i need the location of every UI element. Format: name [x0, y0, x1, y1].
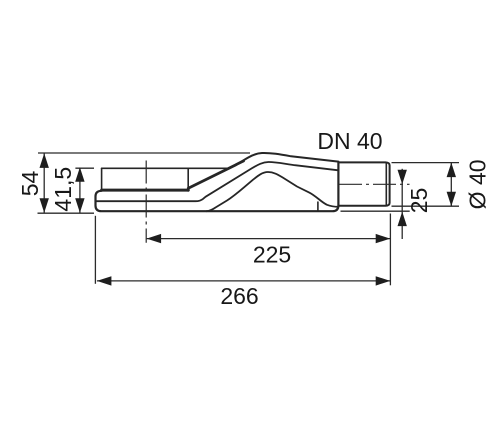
svg-text:41,5: 41,5 — [50, 167, 76, 212]
svg-text:Ø 40: Ø 40 — [465, 159, 491, 209]
svg-text:54: 54 — [17, 171, 43, 197]
svg-text:225: 225 — [253, 241, 291, 267]
svg-text:DN 40: DN 40 — [317, 128, 382, 154]
svg-text:266: 266 — [220, 283, 258, 309]
svg-text:25: 25 — [406, 188, 432, 214]
